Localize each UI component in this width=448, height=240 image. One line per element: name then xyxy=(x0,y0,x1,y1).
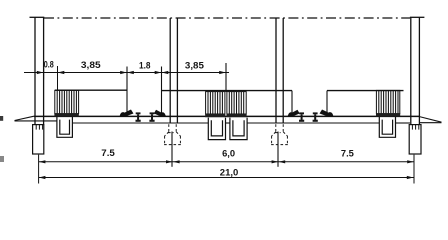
hidden pier below column K3 xyxy=(271,124,288,144)
bearing symbol T4 xyxy=(320,110,333,115)
centre tick of pier K2 xyxy=(171,132,173,167)
bearing symbol T1 xyxy=(120,110,133,115)
rail R2 xyxy=(149,112,154,121)
column K2 xyxy=(170,18,177,123)
centre tick between middle walls xyxy=(225,63,227,92)
seam marks at pier P1 head xyxy=(36,125,42,130)
platform slab line segment B xyxy=(162,90,293,92)
platform slab line segment C xyxy=(327,90,404,92)
deck left edge bottom line xyxy=(15,120,57,122)
rail R1 xyxy=(136,112,141,121)
bearing plate under wall W2 xyxy=(205,114,225,117)
column K1 cap xyxy=(30,16,45,18)
column K4 xyxy=(411,17,420,124)
bearing pedestal U3 xyxy=(230,118,247,140)
svg-text:7.5: 7.5 xyxy=(341,148,354,159)
dimension arrows upper chain xyxy=(37,71,226,74)
svg-text:3,85: 3,85 xyxy=(81,59,101,70)
deck bottom line segment 2 xyxy=(73,122,208,124)
hatched wall W4 xyxy=(376,90,399,113)
bearing pedestal U4 xyxy=(379,117,395,137)
platform edge wall x=292 xyxy=(291,91,293,117)
platform edge wall x=327 xyxy=(326,91,328,117)
svg-text:0.8: 0.8 xyxy=(44,59,54,70)
dimension tick at column K1 edge xyxy=(43,66,45,80)
platform edge wall / tick x=161.5 xyxy=(161,67,163,117)
roof axis dash-dot line xyxy=(44,17,410,19)
hatched wall W3 xyxy=(227,92,246,114)
platform edge wall / tick x=127 xyxy=(126,67,128,117)
deck bottom line segment 3 xyxy=(226,122,230,124)
bearing symbol T3 xyxy=(288,110,299,115)
lower dimension line spans xyxy=(39,161,414,163)
deck left edge taper diagonal xyxy=(15,116,35,120)
pier P4 xyxy=(409,125,421,154)
column K4 cap xyxy=(410,16,425,18)
svg-text:6,0: 6,0 xyxy=(222,148,235,159)
svg-text:3,85: 3,85 xyxy=(185,59,204,70)
lower dimension arrows xyxy=(39,160,414,179)
hatched wall W1 xyxy=(55,90,79,113)
bearing plate under wall W4 xyxy=(376,113,400,116)
hidden pier below column K2 xyxy=(164,124,181,144)
column K1 xyxy=(35,17,44,124)
column K3 xyxy=(276,18,283,123)
arrow at K1 edge pointing right xyxy=(37,71,44,74)
rail R3 xyxy=(299,112,304,121)
deck bottom line segment 4 xyxy=(247,122,379,124)
scan speck left margin lower xyxy=(0,156,4,162)
bearing plate under wall W1 xyxy=(54,113,78,116)
centre tick of pier K3 xyxy=(277,132,279,167)
rail R4 xyxy=(313,112,318,121)
upper dimension chain line xyxy=(24,72,229,74)
extension line below pier P1 xyxy=(38,155,40,184)
pier P1 xyxy=(33,125,44,154)
arrow at 57.5 pointing left xyxy=(58,71,65,74)
seam marks at pier P4 head xyxy=(412,125,418,130)
arrow pair at 161.5 xyxy=(155,71,162,74)
deck right edge taper diagonal xyxy=(420,117,442,123)
bearing plate under wall W3 xyxy=(227,114,247,117)
deck bottom line segment 5 xyxy=(396,122,410,124)
platform slab line segment A xyxy=(55,89,127,91)
overall dimension line xyxy=(39,177,414,179)
svg-text:7.5: 7.5 xyxy=(101,147,115,158)
deck top line xyxy=(34,115,420,117)
svg-text:21,0: 21,0 xyxy=(220,167,239,178)
deck right edge bottom line xyxy=(420,122,442,124)
scan speck left margin upper xyxy=(0,116,3,121)
bearing pedestal U2 xyxy=(208,118,225,140)
svg-text:1.8: 1.8 xyxy=(139,59,151,70)
arrow at centre tick pointing right xyxy=(219,71,226,74)
extension line below pier P4 xyxy=(413,155,415,184)
arrow pair at 127 xyxy=(120,71,127,74)
dimension tick x=57.5 xyxy=(57,66,59,91)
bearing symbol T2 xyxy=(155,110,166,115)
bearing pedestal U1 xyxy=(57,117,73,137)
hatched wall W2 xyxy=(206,92,225,114)
